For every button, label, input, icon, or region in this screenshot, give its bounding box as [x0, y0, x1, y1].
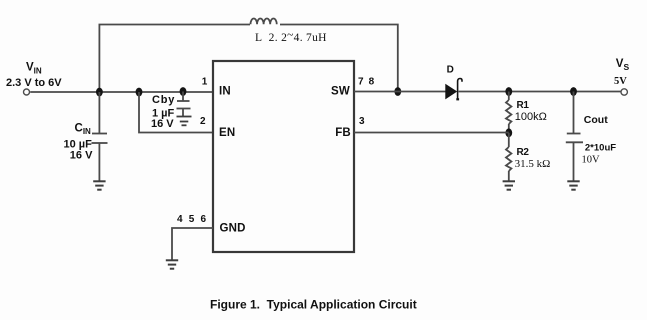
capacitor CIN	[92, 92, 108, 181]
svg-text:Figure 1. Typical Application: Figure 1. Typical Application Circuit	[210, 298, 417, 312]
svg-text:VS: VS	[616, 58, 630, 72]
svg-text:4 5 6: 4 5 6	[177, 214, 208, 225]
svg-text:31.5 kΩ: 31.5 kΩ	[515, 158, 551, 170]
node VIN junction	[96, 88, 103, 97]
diode D	[446, 79, 462, 101]
node junction top-rail / SW	[394, 87, 401, 96]
svg-text:R2: R2	[517, 147, 530, 158]
svg-text:IN: IN	[219, 86, 231, 98]
terminal VS (open circle)	[621, 89, 627, 95]
svg-text:5V: 5V	[614, 76, 627, 87]
wire VIN to IN pin	[30, 91, 213, 93]
terminal VIN (open circle)	[24, 89, 30, 95]
node FB junction	[505, 128, 512, 137]
ground below Cout	[567, 181, 579, 189]
node EN branch junction	[136, 88, 143, 97]
ground below GND pin	[166, 260, 178, 268]
wire GND pin to ground	[172, 228, 213, 260]
ground below CIN	[93, 181, 105, 189]
capacitor Cout	[566, 92, 583, 181]
svg-text:10V: 10V	[582, 155, 601, 166]
wire SW pin to diode	[354, 91, 446, 93]
wire FB	[354, 132, 509, 134]
svg-text:16 V: 16 V	[151, 118, 174, 130]
svg-text:EN: EN	[219, 127, 235, 139]
svg-text:3: 3	[359, 116, 365, 127]
wire top rail right (inductor down to SW wire)	[280, 25, 398, 92]
svg-text:CIN: CIN	[75, 123, 92, 137]
svg-text:VIN: VIN	[26, 62, 42, 76]
svg-text:SW: SW	[331, 86, 350, 98]
ground below Cby	[177, 117, 192, 126]
wire EN branch	[139, 92, 213, 133]
svg-text:FB: FB	[335, 127, 351, 139]
resistor R2	[506, 133, 511, 181]
svg-text:L 2. 2~4. 7uH: L 2. 2~4. 7uH	[255, 30, 327, 45]
node Cby junction	[180, 87, 187, 96]
capacitor Cby	[177, 92, 191, 117]
wire top rail left (VIN node up and right to inductor)	[99, 25, 250, 93]
node R1 top junction	[505, 87, 512, 96]
svg-text:GND: GND	[220, 223, 246, 235]
svg-text:16 V: 16 V	[70, 150, 93, 162]
ground below R2	[503, 181, 515, 189]
svg-text:100kΩ: 100kΩ	[515, 111, 547, 123]
node Cout junction	[570, 87, 577, 96]
inductor L coil	[251, 18, 277, 24]
svg-text:2: 2	[200, 116, 206, 127]
svg-text:7 8: 7 8	[358, 77, 375, 88]
svg-text:R1: R1	[517, 100, 530, 111]
svg-text:2*10uF: 2*10uF	[585, 143, 616, 154]
svg-text:Cby: Cby	[152, 94, 175, 106]
svg-text:1: 1	[202, 77, 208, 88]
IC U1 box	[213, 61, 354, 252]
svg-text:2.3 V to 6V: 2.3 V to 6V	[6, 77, 62, 89]
wire diode to VS terminal	[459, 91, 621, 93]
resistor R1	[506, 92, 511, 133]
svg-text:Cout: Cout	[584, 114, 608, 126]
svg-text:D: D	[447, 65, 454, 76]
